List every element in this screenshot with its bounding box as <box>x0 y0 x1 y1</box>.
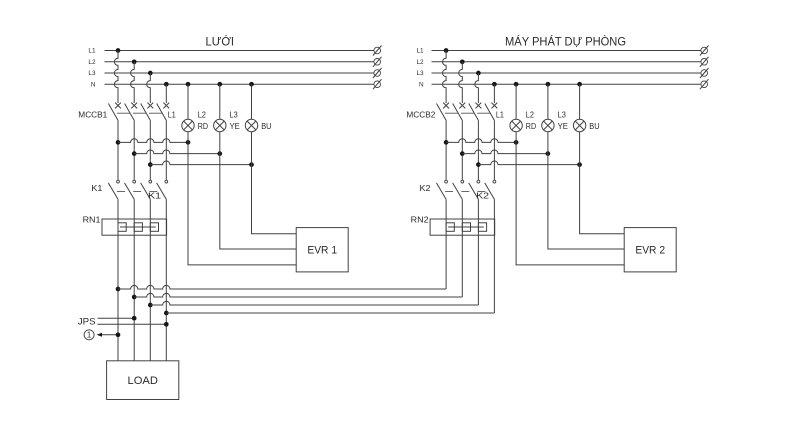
wire MCCB pole 3 to K2 (generator) <box>477 120 479 180</box>
wire MCCB pole 2 to K2 (generator) <box>461 120 463 180</box>
node JPS phase tap <box>132 316 137 321</box>
lamp BU (generator) <box>573 119 585 131</box>
wire lamp RD branch to EVR 1 <box>188 142 296 265</box>
node load bus 3 left <box>148 303 153 308</box>
terminal Ø N (generator) <box>701 81 708 88</box>
svg-text:L1: L1 <box>496 109 504 119</box>
wire MCCB pole 1 to K2 (generator) <box>445 120 447 180</box>
wire MCCB pole 1 to K1 (grid) <box>117 120 119 180</box>
svg-text:L2: L2 <box>416 59 424 66</box>
wire N to lamp YE (generator) <box>547 84 549 119</box>
svg-text:K1: K1 <box>91 183 102 193</box>
callout circled 1 <box>84 330 94 340</box>
wire lamp RD to feed line (generator) <box>515 132 517 143</box>
terminal Ø L2 (generator) <box>701 59 708 66</box>
wire tap N to MCCB pole 4 (generator) <box>493 84 495 103</box>
svg-text:L3: L3 <box>416 70 424 77</box>
terminal Ø L2 (grid) <box>374 59 381 66</box>
terminal Ø L3 (grid) <box>374 70 381 77</box>
wire K2 pole 1 output down <box>445 199 447 289</box>
wire N to lamp BU (grid) <box>251 84 253 119</box>
svg-text:LƯỚI: LƯỚI <box>206 33 235 48</box>
svg-text:MCCB1: MCCB1 <box>78 109 107 119</box>
bus wire L3 (grid) <box>105 72 374 74</box>
node tap L2 (generator) <box>460 59 465 64</box>
terminal Ø L1 (generator) <box>701 47 708 54</box>
svg-text:L2: L2 <box>198 109 206 119</box>
node N tap lamp BU (grid) <box>249 82 254 87</box>
node phase L2 feed (grid) <box>132 151 137 156</box>
relay box EVR 1 <box>296 228 348 272</box>
wire K2 pole 2 output down <box>461 199 463 297</box>
node tap N (grid) <box>164 82 169 87</box>
svg-text:L1: L1 <box>168 109 176 119</box>
terminal Ø N (grid) <box>374 81 381 88</box>
node arrow junction <box>116 332 121 337</box>
node load bus 2 left <box>132 295 137 300</box>
lamp YE (generator) <box>542 119 554 131</box>
wire MCCB pole 4 to K1 (grid) <box>165 120 167 180</box>
wire tap L3 to MCCB pole 3 (generator) <box>475 73 479 103</box>
node N tap lamp YE (generator) <box>546 82 551 87</box>
node N tap lamp RD (grid) <box>186 82 191 87</box>
node phase L3 feed (generator) <box>476 162 481 167</box>
node tap N (generator) <box>492 82 497 87</box>
wire N to lamp RD (grid) <box>187 84 189 119</box>
wire JPS phase tap <box>98 317 135 319</box>
breaker MCCB2 <box>437 103 498 121</box>
wire load bus row 2 <box>134 293 462 297</box>
wire lamp feed line 3 (grid) <box>150 161 251 165</box>
svg-text:L2: L2 <box>526 109 534 119</box>
wire K1 pole 1 output down <box>117 199 119 361</box>
svg-text:K1: K1 <box>148 190 161 200</box>
wire lamp RD to feed line (grid) <box>187 132 189 143</box>
wire lamp feed line 2 (generator) <box>462 150 548 154</box>
svg-text:L1: L1 <box>88 48 96 55</box>
svg-text:L3: L3 <box>558 109 566 119</box>
node JPS neutral tap <box>164 322 169 327</box>
svg-text:RD: RD <box>526 121 536 131</box>
wire load bus row 3 <box>150 301 478 305</box>
svg-text:BU: BU <box>589 121 599 131</box>
svg-text:L3: L3 <box>88 70 96 77</box>
lamp YE (grid) <box>214 119 226 131</box>
node tap L3 (grid) <box>148 71 153 76</box>
svg-text:MCCB2: MCCB2 <box>406 109 435 119</box>
wire tap L1 to MCCB pole 1 (generator) <box>443 51 447 104</box>
node load bus 4 left <box>164 311 169 316</box>
wire tap L3 to MCCB pole 3 (grid) <box>147 73 151 103</box>
wire lamp feed line 1 (grid) <box>118 139 188 143</box>
node N tap lamp YE (grid) <box>217 82 222 87</box>
svg-text:N: N <box>419 81 424 88</box>
node N tap lamp BU (generator) <box>577 82 582 87</box>
terminal Ø L3 (generator) <box>701 70 708 77</box>
wire load bus row 1 <box>118 285 446 289</box>
svg-text:MÁY PHÁT DỰ PHÒNG: MÁY PHÁT DỰ PHÒNG <box>505 33 626 48</box>
svg-text:K2: K2 <box>476 190 489 200</box>
wire lamp YE branch to EVR 1 <box>220 154 296 249</box>
wire tap L2 to MCCB pole 2 (grid) <box>131 62 135 103</box>
bus wire N (grid) <box>105 83 374 85</box>
svg-text:L2: L2 <box>88 59 96 66</box>
wire load bus row 4 <box>166 312 494 314</box>
svg-text:YE: YE <box>558 121 569 131</box>
lamp BU (grid) <box>245 119 257 131</box>
node phase L3 feed (grid) <box>148 162 153 167</box>
wire K1 pole 2 output down <box>133 199 135 361</box>
svg-text:EVR 1: EVR 1 <box>307 244 337 256</box>
node tap L1 (generator) <box>444 48 449 53</box>
svg-text:EVR 2: EVR 2 <box>635 244 665 256</box>
bus wire L1 (generator) <box>432 50 701 52</box>
wire lamp feed line 2 (grid) <box>134 150 220 154</box>
wire lamp feed line 1 (generator) <box>446 139 516 143</box>
svg-text:RD: RD <box>198 121 208 131</box>
wire lamp BU branch to EVR 1 <box>252 165 297 234</box>
svg-text:YE: YE <box>230 121 241 131</box>
wire lamp RD branch to EVR 2 <box>516 142 624 265</box>
bus wire L3 (generator) <box>432 72 701 74</box>
wire MCCB pole 4 to K2 (generator) <box>493 120 495 180</box>
node tap L3 (generator) <box>476 71 481 76</box>
svg-text:L1: L1 <box>416 48 424 55</box>
svg-text:L3: L3 <box>230 109 238 119</box>
bus wire L2 (grid) <box>105 61 374 63</box>
svg-text:RN2: RN2 <box>411 214 429 224</box>
relay box EVR 2 <box>624 228 676 272</box>
wire JPS neutral tap <box>98 323 167 325</box>
svg-text:LOAD: LOAD <box>128 375 158 387</box>
wire tap N to MCCB pole 4 (grid) <box>165 84 167 103</box>
overload relay RN2 <box>430 219 495 235</box>
wire K1 pole 4 output down <box>165 199 167 361</box>
wire lamp feed line 3 (generator) <box>478 161 579 165</box>
wire lamp BU to feed line (generator) <box>579 132 581 165</box>
node phase L1 feed (grid) <box>116 140 121 145</box>
node tap L1 (grid) <box>116 48 121 53</box>
node load bus 1 left <box>116 287 121 292</box>
wire N to lamp YE (grid) <box>219 84 221 119</box>
node tap L2 (grid) <box>132 59 137 64</box>
contactor K1 <box>108 180 167 199</box>
node N tap lamp RD (generator) <box>514 82 519 87</box>
bus wire N (generator) <box>432 83 701 85</box>
arrow callout 1 to phase wire <box>97 333 118 337</box>
wire N to lamp BU (generator) <box>579 84 581 119</box>
overload relay RN1 <box>102 219 167 235</box>
wire lamp YE branch to EVR 2 <box>548 154 624 249</box>
wire MCCB pole 2 to K1 (grid) <box>133 120 135 180</box>
wire lamp YE to feed line (generator) <box>547 132 549 154</box>
svg-text:JPS: JPS <box>78 317 96 328</box>
node phase L2 feed (generator) <box>460 151 465 156</box>
breaker MCCB1 <box>108 103 169 121</box>
lamp RD (generator) <box>510 119 522 131</box>
wire N to lamp RD (generator) <box>515 84 517 119</box>
svg-text:K2: K2 <box>420 183 431 193</box>
wire MCCB pole 3 to K1 (grid) <box>149 120 151 180</box>
contactor K2 <box>436 180 495 199</box>
wire lamp YE to feed line (grid) <box>219 132 221 154</box>
wire lamp BU to feed line (grid) <box>251 132 253 165</box>
svg-text:RN1: RN1 <box>83 214 101 224</box>
node phase L1 feed (generator) <box>444 140 449 145</box>
wire K2 pole 4 output down <box>493 199 495 313</box>
block LOAD <box>107 361 179 400</box>
wire K2 pole 3 output down <box>477 199 479 305</box>
wire tap L2 to MCCB pole 2 (generator) <box>459 62 463 103</box>
svg-text:N: N <box>91 81 96 88</box>
svg-text:1: 1 <box>87 331 91 340</box>
terminal Ø L1 (grid) <box>374 47 381 54</box>
wire lamp BU branch to EVR 2 <box>580 165 625 234</box>
svg-text:BU: BU <box>261 121 271 131</box>
wire tap L1 to MCCB pole 1 (grid) <box>114 51 118 104</box>
bus wire L1 (grid) <box>105 50 374 52</box>
bus wire L2 (generator) <box>432 61 701 63</box>
wire K1 pole 3 output down <box>149 199 151 361</box>
lamp RD (grid) <box>182 119 194 131</box>
